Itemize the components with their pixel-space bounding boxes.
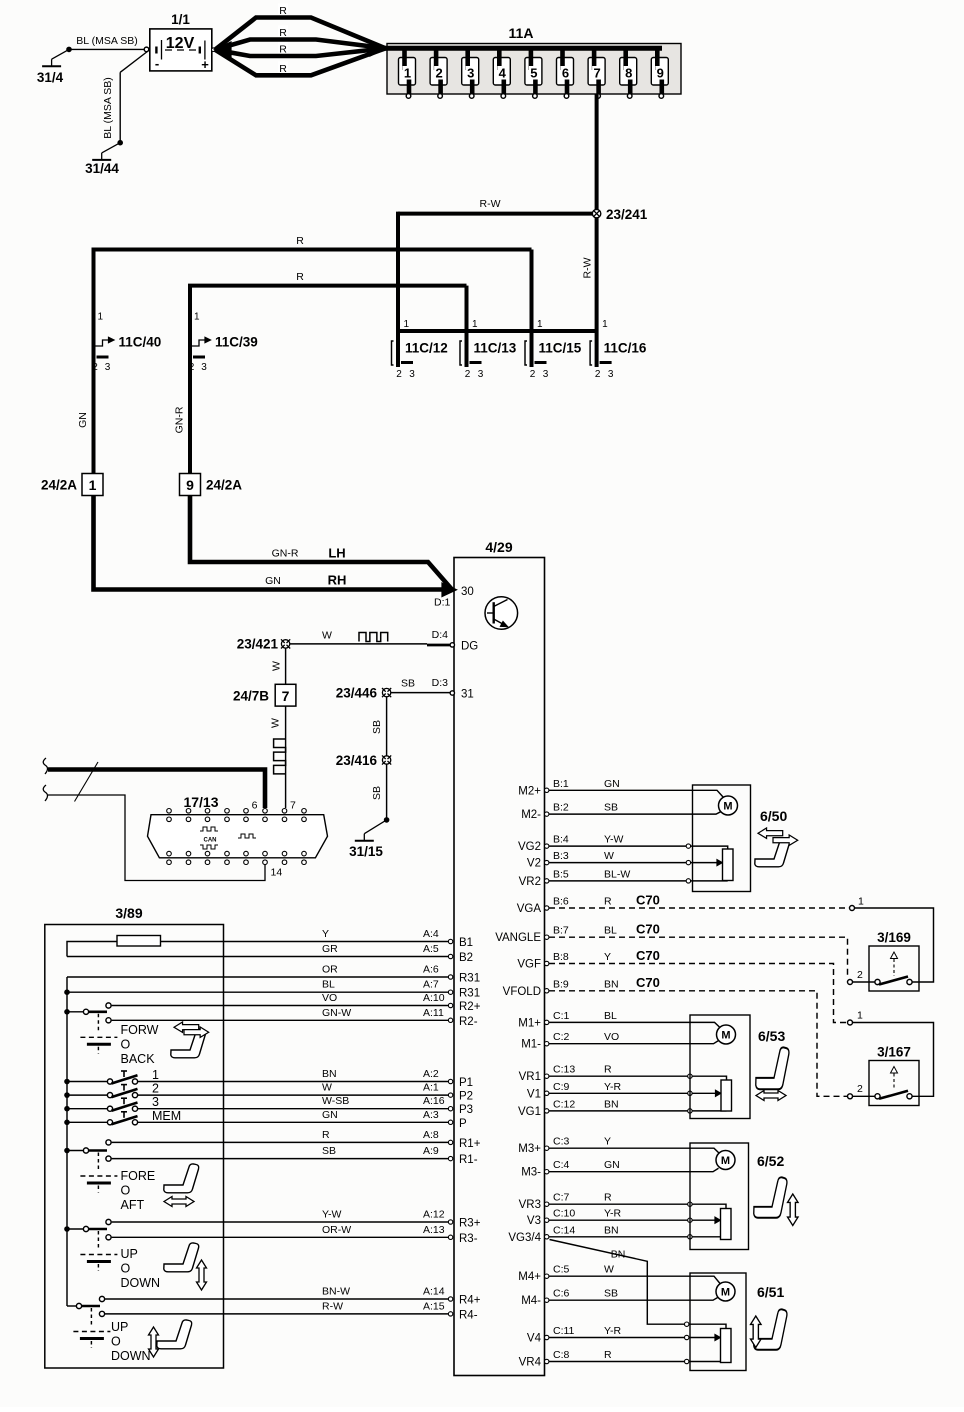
wire to 17/13 pin 14 with break — [43, 785, 47, 801]
wire GR loop — [67, 956, 448, 958]
svg-text:B2: B2 — [459, 952, 473, 964]
svg-text:FORW: FORW — [121, 1023, 159, 1037]
svg-text:4: 4 — [499, 66, 507, 81]
wire W down to 24/7B — [285, 649, 287, 685]
fuse 6 — [557, 58, 574, 86]
svg-text:R: R — [296, 235, 304, 247]
svg-text:R: R — [604, 1064, 612, 1076]
svg-text:Y: Y — [604, 1136, 611, 1148]
svg-text:1: 1 — [152, 1068, 159, 1082]
svg-text:GN: GN — [322, 1109, 338, 1121]
svg-text:BN: BN — [604, 1098, 619, 1110]
svg-text:RH: RH — [328, 573, 347, 588]
connector 24/7B pin 7 — [275, 684, 296, 706]
bus bar in fuse box — [386, 46, 663, 51]
pin-1 bus of 11C connectors — [396, 329, 597, 333]
svg-text:B:7: B:7 — [553, 925, 569, 937]
svg-text:3: 3 — [409, 369, 415, 380]
fuse 1 — [399, 58, 416, 86]
node 23/241 — [592, 209, 600, 217]
svg-text:A:11: A:11 — [423, 1007, 444, 1019]
svg-text:31: 31 — [461, 689, 474, 701]
terminal 31 — [450, 691, 454, 695]
svg-text:M1+: M1+ — [518, 1017, 541, 1029]
svg-text:C:8: C:8 — [553, 1349, 570, 1361]
svg-text:R1-: R1- — [459, 1154, 478, 1166]
svg-text:23/446: 23/446 — [336, 686, 378, 701]
wire R to 11C/40 and 11C/15 — [94, 250, 532, 333]
svg-text:31/15: 31/15 — [349, 844, 383, 859]
svg-text:24/7B: 24/7B — [233, 689, 269, 704]
svg-text:A:6: A:6 — [423, 964, 439, 976]
fuse 5 — [525, 58, 542, 86]
svg-text:Y-R: Y-R — [604, 1081, 622, 1093]
wire SB fore — [112, 1158, 449, 1160]
svg-text:2: 2 — [530, 369, 536, 380]
svg-text:7: 7 — [282, 688, 290, 704]
svg-text:W: W — [270, 718, 282, 728]
svg-text:GN-R: GN-R — [174, 406, 186, 433]
svg-text:BL: BL — [322, 979, 335, 991]
wire SB between splices — [386, 697, 388, 756]
svg-text:C:5: C:5 — [553, 1264, 570, 1276]
svg-text:M3-: M3- — [521, 1167, 541, 1179]
bus inside 3/89 — [66, 977, 68, 1306]
svg-text:3/89: 3/89 — [115, 905, 142, 921]
svg-text:11C/12: 11C/12 — [405, 341, 448, 356]
svg-text:3/167: 3/167 — [877, 1045, 911, 1060]
svg-text:1: 1 — [194, 312, 200, 323]
wire W from 24/7B to 17/13 pin 7 — [285, 706, 287, 808]
svg-text:M4+: M4+ — [518, 1271, 541, 1283]
seat icon up/down rear — [157, 1320, 192, 1349]
svg-text:O: O — [121, 1184, 131, 1198]
svg-text:P1: P1 — [459, 1077, 473, 1089]
svg-text:W: W — [604, 1264, 614, 1276]
svg-text:1: 1 — [98, 312, 104, 323]
svg-text:C:12: C:12 — [553, 1098, 575, 1110]
terminal 30 arrow into 4/29 — [442, 583, 457, 597]
svg-text:C:1: C:1 — [553, 1010, 570, 1022]
transistor symbol inside 4/29 — [485, 597, 518, 630]
svg-text:1: 1 — [472, 319, 478, 330]
svg-text:M1-: M1- — [521, 1039, 541, 1051]
wire to 17/13 pin 6 with break — [43, 758, 47, 774]
svg-text:M: M — [721, 1155, 730, 1167]
memory switch 1 — [64, 1079, 70, 1085]
seat icon up/down front — [164, 1243, 199, 1272]
motor unit 6/51 — [690, 1273, 746, 1371]
svg-text:A:2: A:2 — [423, 1068, 439, 1080]
svg-text:C:2: C:2 — [553, 1031, 570, 1043]
svg-text:FORE: FORE — [121, 1169, 156, 1183]
svg-text:1: 1 — [404, 66, 411, 81]
svg-text:OR-W: OR-W — [322, 1224, 351, 1236]
svg-text:Y-R: Y-R — [604, 1208, 622, 1220]
wire from memory switch 3 — [138, 1108, 449, 1110]
svg-text:M: M — [723, 801, 732, 813]
svg-text:C:13: C:13 — [553, 1064, 575, 1076]
svg-text:BACK: BACK — [121, 1052, 156, 1066]
wire SB to terminal D:3 31 — [391, 692, 450, 694]
seat icon 6/53 — [756, 1047, 789, 1089]
switch FORW/BACK — [64, 1009, 70, 1015]
svg-text:D:1: D:1 — [434, 597, 451, 609]
svg-text:VANGLE: VANGLE — [495, 932, 541, 944]
svg-text:Y-R: Y-R — [604, 1325, 622, 1337]
svg-text:C:14: C:14 — [553, 1224, 575, 1236]
svg-text:VO: VO — [604, 1031, 619, 1043]
svg-text:3: 3 — [105, 362, 111, 373]
svg-text:GN: GN — [604, 778, 620, 790]
wire R to 11C/39 and 11C/13 — [190, 286, 467, 332]
svg-text:1: 1 — [602, 319, 608, 330]
svg-text:W: W — [322, 1082, 332, 1094]
svg-text:V3: V3 — [527, 1215, 541, 1227]
svg-text:W: W — [604, 850, 614, 862]
svg-text:M2-: M2- — [521, 809, 541, 821]
svg-text:BN: BN — [322, 1068, 337, 1080]
ground 31/44 — [117, 140, 123, 146]
svg-text:A:14: A:14 — [423, 1286, 445, 1298]
svg-text:BN: BN — [604, 1224, 619, 1236]
fuse 3 lower terminal — [469, 94, 474, 99]
svg-text:VR1: VR1 — [519, 1071, 541, 1083]
wire GN-R LH — [190, 496, 452, 590]
svg-text:11A: 11A — [509, 25, 534, 41]
svg-text:GR: GR — [322, 943, 338, 955]
wire SB to ground 31/15 — [386, 765, 388, 820]
node C70 pin 1 lower — [848, 1020, 853, 1025]
svg-text:B1: B1 — [459, 937, 473, 949]
svg-text:11C/40: 11C/40 — [119, 335, 162, 350]
svg-text:A:5: A:5 — [423, 943, 439, 955]
svg-text:BL: BL — [604, 1010, 617, 1022]
fuse 2 — [430, 58, 447, 86]
switch UP/DOWN rear — [76, 1303, 81, 1308]
svg-text:24/2A: 24/2A — [206, 478, 242, 493]
fuse 1 lower terminal — [406, 94, 411, 99]
svg-text:Y: Y — [322, 928, 329, 940]
switch FORE/AFT — [64, 1148, 70, 1154]
svg-text:6/50: 6/50 — [760, 808, 787, 824]
svg-text:R: R — [279, 5, 287, 17]
svg-text:3: 3 — [543, 369, 549, 380]
svg-text:B:5: B:5 — [553, 868, 569, 880]
svg-text:6: 6 — [252, 800, 258, 812]
svg-text:1: 1 — [858, 896, 864, 908]
svg-text:C:11: C:11 — [553, 1325, 575, 1337]
svg-text:R2+: R2+ — [459, 1001, 481, 1013]
svg-text:VO: VO — [322, 992, 337, 1004]
svg-text:DOWN: DOWN — [121, 1276, 161, 1290]
svg-text:C:10: C:10 — [553, 1208, 575, 1220]
svg-text:B:6: B:6 — [553, 896, 569, 908]
svg-text:GN-W: GN-W — [322, 1007, 351, 1019]
svg-text:O: O — [111, 1335, 121, 1349]
wire W to terminal D:4 DG — [290, 643, 427, 645]
wire R-W drop to 11C/12 — [396, 212, 400, 367]
svg-text:Y: Y — [604, 951, 611, 963]
fuse 8 lower terminal — [627, 94, 632, 99]
wire to 3/169 pin — [855, 908, 934, 982]
svg-text:AFT: AFT — [121, 1198, 145, 1212]
svg-text:C:3: C:3 — [553, 1136, 570, 1148]
svg-text:R31: R31 — [459, 988, 480, 1000]
svg-text:6/52: 6/52 — [757, 1153, 784, 1169]
ground 31/4 — [66, 47, 72, 53]
svg-text:R1+: R1+ — [459, 1138, 481, 1150]
svg-text:6/51: 6/51 — [757, 1284, 784, 1300]
svg-text:11C/39: 11C/39 — [215, 335, 258, 350]
fuse 5 lower terminal — [533, 94, 538, 99]
svg-text:R: R — [296, 271, 304, 283]
terminal DG — [450, 643, 454, 647]
svg-text:R3-: R3- — [459, 1233, 478, 1245]
svg-text:1/1: 1/1 — [171, 12, 190, 27]
wire R-W rear — [105, 1313, 449, 1315]
svg-text:W: W — [322, 630, 332, 642]
wire OR — [67, 976, 448, 978]
svg-text:17/13: 17/13 — [183, 794, 218, 810]
svg-text:R4+: R4+ — [459, 1295, 481, 1307]
seat icon 6/50 — [755, 838, 790, 867]
svg-text:30: 30 — [461, 586, 474, 598]
svg-text:2: 2 — [857, 1083, 863, 1095]
svg-text:VR2: VR2 — [519, 876, 541, 888]
resistor inside 3/89 — [67, 942, 117, 957]
seat icon fore/aft — [164, 1164, 199, 1193]
wire from memory switch 1 — [138, 1081, 449, 1083]
wire GN-W — [112, 1019, 449, 1021]
svg-text:A:1: A:1 — [423, 1082, 439, 1094]
svg-text:B:8: B:8 — [553, 951, 569, 963]
svg-text:9: 9 — [657, 66, 664, 81]
wire R-W from fuse 7 down — [595, 94, 599, 331]
wire R-W horizontal branch — [398, 212, 597, 216]
motor unit 6/52 — [690, 1143, 749, 1250]
svg-text:2: 2 — [396, 369, 402, 380]
svg-text:6: 6 — [562, 66, 569, 81]
svg-text:C70: C70 — [636, 922, 660, 937]
splice 23/416 — [382, 756, 390, 764]
svg-text:R-W: R-W — [480, 198, 501, 210]
wire OR-W — [112, 1236, 449, 1238]
svg-text:BN: BN — [611, 1249, 626, 1261]
svg-text:VFOLD: VFOLD — [503, 986, 541, 998]
svg-text:Y-W: Y-W — [322, 1209, 342, 1221]
fuse 6 lower terminal — [564, 94, 569, 99]
svg-text:A:10: A:10 — [423, 992, 445, 1004]
wire GN from 11C/40 to 24/2A — [92, 331, 96, 474]
svg-text:C70: C70 — [636, 893, 660, 908]
battery + output node — [212, 48, 216, 52]
node C70 pin 2 lower — [848, 1094, 853, 1099]
svg-text:BL (MSA SB): BL (MSA SB) — [76, 35, 137, 47]
ground 31/15 — [384, 817, 390, 823]
svg-text:23/421: 23/421 — [237, 637, 279, 652]
svg-text:R: R — [604, 1192, 612, 1204]
svg-text:2: 2 — [152, 1082, 159, 1096]
node C70 pin 1 upper — [850, 906, 855, 911]
wire bundle R (4 wires) battery to fuse box 11A — [215, 42, 232, 58]
svg-text:R: R — [322, 1129, 330, 1141]
svg-text:R: R — [604, 1349, 612, 1361]
svg-text:A:13: A:13 — [423, 1224, 445, 1236]
svg-text:2: 2 — [595, 369, 601, 380]
svg-text:9: 9 — [186, 477, 194, 493]
fuse 9 — [651, 58, 668, 86]
svg-text:SB: SB — [371, 786, 383, 800]
svg-text:11C/15: 11C/15 — [539, 341, 582, 356]
svg-text:7: 7 — [593, 66, 600, 81]
svg-text:1: 1 — [857, 1010, 863, 1022]
wire BN from VG3/4 to 6/51 — [550, 1240, 685, 1325]
svg-text:BL (MSA SB): BL (MSA SB) — [102, 77, 114, 138]
svg-text:1: 1 — [404, 319, 410, 330]
svg-text:M: M — [721, 1030, 730, 1042]
svg-text:A:12: A:12 — [423, 1209, 445, 1221]
svg-text:A:7: A:7 — [423, 979, 439, 991]
svg-text:P: P — [459, 1118, 467, 1130]
wire from memory switch MEM — [138, 1121, 449, 1123]
svg-text:7: 7 — [290, 800, 296, 812]
svg-text:8: 8 — [625, 66, 632, 81]
svg-text:R: R — [279, 27, 287, 39]
svg-text:BN: BN — [604, 978, 619, 990]
svg-text:R3+: R3+ — [459, 1218, 481, 1230]
fuse 4 lower terminal — [501, 94, 506, 99]
svg-text:5: 5 — [530, 66, 537, 81]
svg-text:R: R — [604, 896, 612, 908]
svg-text:GN: GN — [265, 575, 281, 587]
memory switch MEM — [64, 1120, 70, 1126]
motor unit 6/50 — [693, 785, 751, 892]
svg-text:R-W: R-W — [582, 257, 594, 278]
fuse 8 — [620, 58, 637, 86]
svg-text:O: O — [121, 1038, 131, 1052]
wire BN-W — [105, 1298, 449, 1300]
svg-text:M3+: M3+ — [518, 1143, 541, 1155]
svg-text:D:4: D:4 — [432, 629, 449, 641]
node C70 pin 2 upper — [848, 980, 853, 985]
svg-text:P2: P2 — [459, 1091, 473, 1103]
svg-text:SB: SB — [371, 720, 383, 734]
seat icon 6/52 — [754, 1177, 787, 1217]
svg-text:23/241: 23/241 — [606, 207, 648, 222]
svg-text:11C/16: 11C/16 — [604, 341, 647, 356]
fuse 7 — [588, 58, 605, 86]
svg-text:DG: DG — [461, 641, 478, 653]
svg-text:R4-: R4- — [459, 1309, 478, 1321]
svg-text:R: R — [279, 44, 287, 56]
svg-text:SB: SB — [322, 1145, 336, 1157]
svg-text:O: O — [121, 1262, 131, 1276]
svg-text:V4: V4 — [527, 1333, 542, 1345]
svg-text:24/2A: 24/2A — [41, 478, 77, 493]
svg-text:VG2: VG2 — [518, 841, 541, 853]
svg-text:1: 1 — [537, 319, 543, 330]
wire VO — [112, 1005, 449, 1007]
svg-text:VR3: VR3 — [519, 1199, 541, 1211]
connector 24/2A pin 1 — [82, 474, 103, 496]
svg-text:VG1: VG1 — [518, 1106, 541, 1118]
svg-text:3: 3 — [608, 369, 614, 380]
svg-text:R: R — [279, 63, 287, 75]
svg-text:MEM: MEM — [152, 1109, 181, 1123]
wire R fore — [112, 1141, 449, 1143]
svg-text:1: 1 — [89, 477, 97, 493]
svg-text:OR: OR — [322, 964, 338, 976]
motor unit 6/53 — [690, 1015, 750, 1119]
svg-text:6/53: 6/53 — [758, 1028, 785, 1044]
svg-text:-: - — [155, 56, 159, 71]
svg-text:B:1: B:1 — [553, 778, 569, 790]
svg-text:M2+: M2+ — [518, 785, 541, 797]
svg-text:A:3: A:3 — [423, 1109, 439, 1121]
wire BL — [64, 989, 70, 995]
svg-text:CAN: CAN — [204, 838, 217, 844]
node BN into 6/51 — [685, 1322, 689, 1326]
svg-text:VG3/4: VG3/4 — [508, 1232, 541, 1244]
svg-text:C:6: C:6 — [553, 1288, 570, 1300]
svg-text:B:4: B:4 — [553, 834, 569, 846]
svg-text:C70: C70 — [636, 948, 660, 963]
memory switch 3 — [64, 1106, 70, 1112]
svg-text:SB: SB — [604, 802, 618, 814]
wire Y-W — [112, 1221, 449, 1223]
svg-text:+: + — [201, 57, 209, 72]
svg-text:A:15: A:15 — [423, 1300, 445, 1312]
wire BL (MSA SB) to battery — [69, 48, 147, 50]
svg-text:3: 3 — [478, 369, 484, 380]
svg-text:14: 14 — [271, 867, 283, 879]
svg-text:W-SB: W-SB — [322, 1095, 349, 1107]
svg-text:D:3: D:3 — [432, 677, 449, 689]
wire from memory switch 2 — [138, 1094, 449, 1096]
svg-text:23/416: 23/416 — [336, 753, 378, 768]
battery terminal node — [144, 47, 149, 52]
svg-text:DOWN: DOWN — [111, 1349, 151, 1363]
svg-text:C:9: C:9 — [553, 1081, 570, 1093]
seat icon forw/back — [171, 1029, 206, 1058]
fuse 3 — [462, 58, 479, 86]
svg-text:2: 2 — [857, 969, 863, 981]
svg-text:A:16: A:16 — [423, 1095, 445, 1107]
connector 24/2A pin 9 — [180, 474, 201, 496]
wire GN-R from 11C/39 to 24/2A — [188, 331, 192, 474]
svg-text:Y-W: Y-W — [604, 834, 624, 846]
svg-text:GN: GN — [604, 1159, 620, 1171]
svg-text:31/4: 31/4 — [37, 70, 64, 85]
svg-text:4/29: 4/29 — [485, 539, 512, 555]
svg-text:GN-R: GN-R — [272, 548, 299, 560]
svg-text:W: W — [271, 661, 283, 671]
fuse 7 lower terminal — [596, 94, 601, 99]
svg-text:R2-: R2- — [459, 1016, 478, 1028]
svg-text:3: 3 — [201, 362, 207, 373]
fuse 9 lower terminal — [659, 94, 664, 99]
wire BL (MSA SB) to ground 31/44 — [120, 51, 148, 72]
svg-text:V2: V2 — [527, 858, 541, 870]
svg-text:B:9: B:9 — [553, 978, 569, 990]
memory switch 2 — [64, 1092, 70, 1098]
svg-text:3/169: 3/169 — [877, 930, 911, 945]
svg-text:M: M — [721, 1287, 730, 1299]
svg-text:2: 2 — [435, 66, 442, 81]
fuse 4 — [493, 58, 510, 86]
svg-text:LH: LH — [328, 546, 345, 561]
